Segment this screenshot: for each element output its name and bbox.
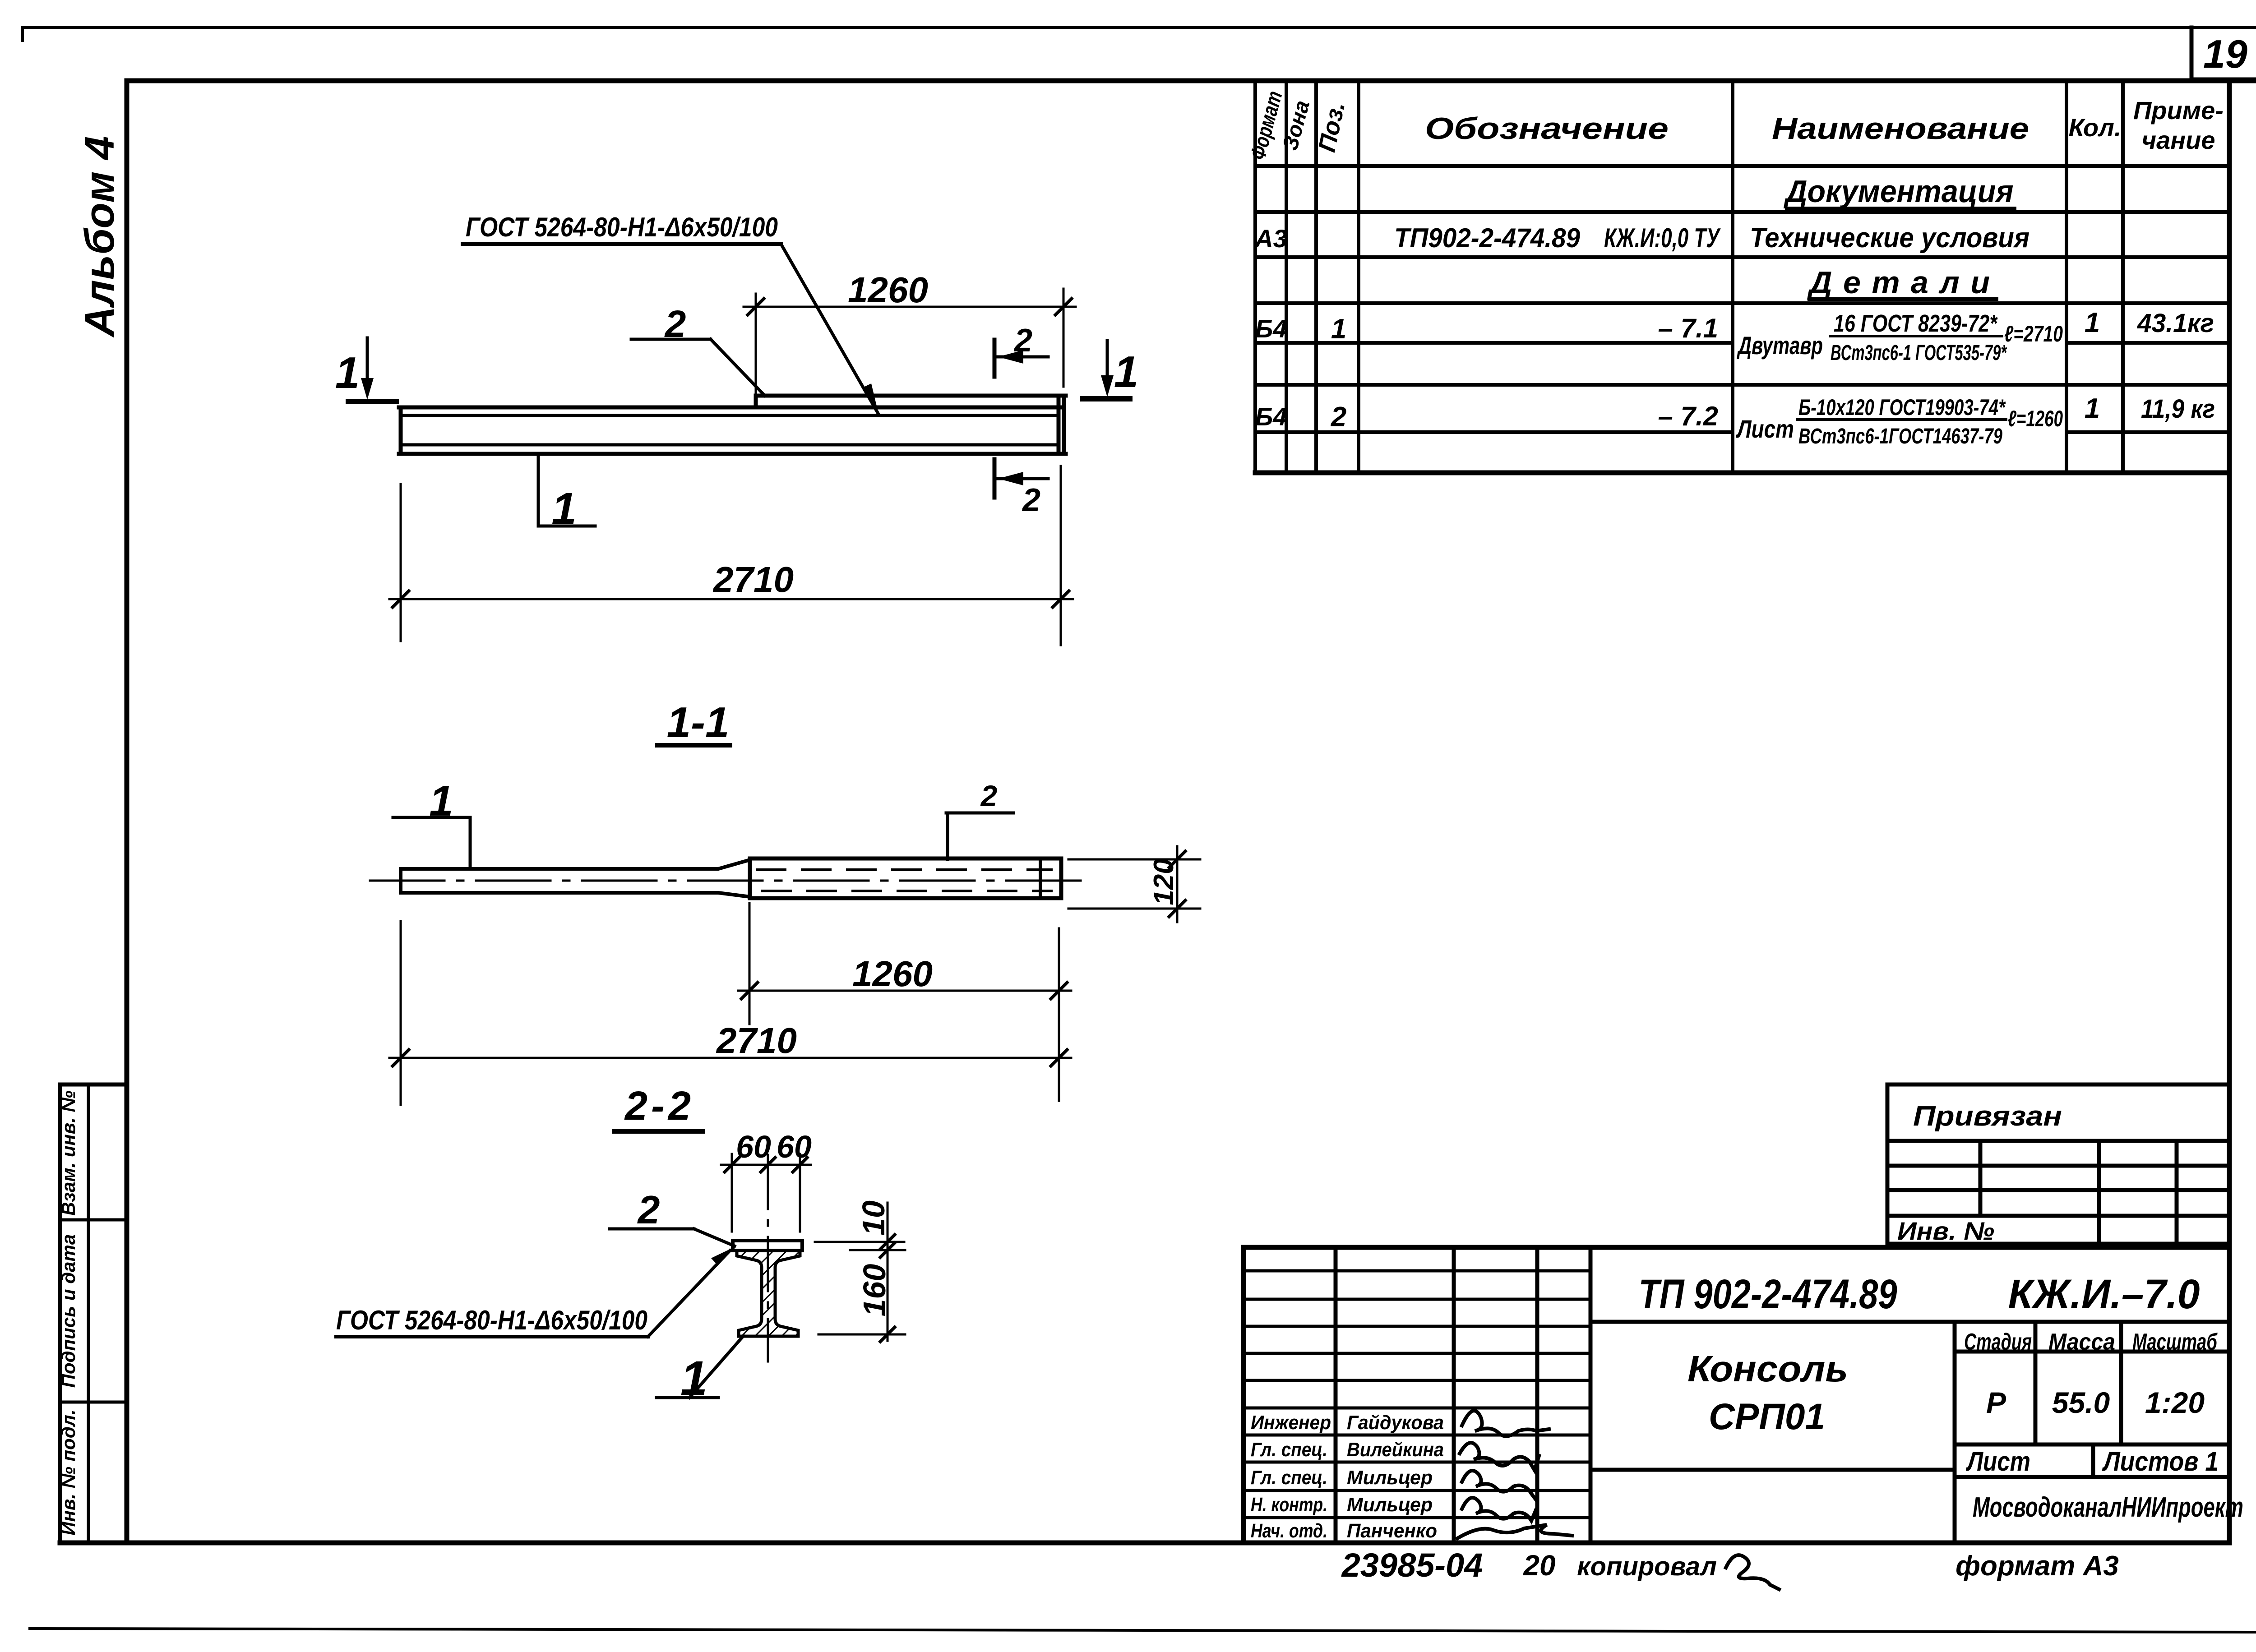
- svg-text:2710: 2710: [712, 559, 794, 600]
- s22 dim 60-60 line: [721, 1164, 811, 1166]
- label 2 shelf: [631, 338, 711, 341]
- s11 hidden edge dashed bottom: [763, 890, 1051, 892]
- svg-text:Инженер: Инженер: [1251, 1412, 1331, 1434]
- svg-text:Листов 1: Листов 1: [2102, 1446, 2219, 1477]
- s11 flange strip left end: [399, 869, 402, 893]
- svg-text:160: 160: [857, 1264, 892, 1317]
- svg-text:Обозначение: Обозначение: [1425, 111, 1669, 146]
- label 1 leader vertical: [537, 455, 540, 526]
- svg-text:1260: 1260: [848, 270, 928, 310]
- dim 1260 ext left: [755, 294, 757, 396]
- svg-text:1:20: 1:20: [2145, 1386, 2205, 1419]
- dim 1260 line: [744, 306, 1076, 308]
- s11 dim 120 ticks: [1169, 851, 1185, 868]
- svg-text:ТП 902-2-474.89: ТП 902-2-474.89: [1639, 1271, 1897, 1317]
- s11 flange strip top: [401, 860, 750, 869]
- svg-text:2-2: 2-2: [624, 1084, 694, 1129]
- spec row tech conditions: [1254, 222, 2029, 254]
- s22 dim ticks right: [880, 1235, 895, 1249]
- svg-text:Альбом 4: Альбом 4: [77, 136, 123, 338]
- svg-text:Гл. спец.: Гл. спец.: [1251, 1439, 1327, 1461]
- section 1-1 title underline: [657, 743, 730, 748]
- s22 dim 60 ext right: [799, 1154, 801, 1232]
- svg-text:43.1кг: 43.1кг: [2137, 309, 2214, 338]
- svg-text:ГОСТ 5264-80-Н1-Δ6х50/100: ГОСТ 5264-80-Н1-Δ6х50/100: [466, 212, 778, 242]
- svg-text:2: 2: [980, 779, 998, 812]
- section mark 1 left arrow: [366, 338, 369, 386]
- svg-text:Технические условия: Технические условия: [1750, 222, 2029, 254]
- svg-text:Подпись и дата: Подпись и дата: [58, 1234, 79, 1388]
- svg-text:Взам. инв. №: Взам. инв. №: [58, 1090, 79, 1215]
- s22 label 2 leader: [694, 1229, 735, 1246]
- svg-text:формат А3: формат А3: [1956, 1550, 2119, 1582]
- dim 2710 ext left: [400, 484, 402, 641]
- copyist signature: [1726, 1555, 1779, 1589]
- svg-text:Инв. №: Инв. №: [1897, 1217, 1994, 1245]
- s22 I-beam section outline hatched: [737, 1251, 800, 1336]
- s11 dim 120 ext top: [1068, 858, 1200, 861]
- svg-text:Двутавр: Двутавр: [1737, 331, 1823, 360]
- svg-text:Вилейкина: Вилейкина: [1347, 1439, 1444, 1461]
- s22 label 2 shelf: [610, 1227, 694, 1231]
- s22 dim 60 ext left: [731, 1154, 733, 1232]
- svg-text:ВСт3пс6-1 ГОСТ535-79*: ВСт3пс6-1 ГОСТ535-79*: [1831, 341, 2007, 365]
- dim 2710 line: [389, 598, 1073, 600]
- svg-text:10: 10: [856, 1200, 891, 1236]
- svg-text:Б4: Б4: [1255, 402, 1287, 431]
- svg-text:Гайдукова: Гайдукова: [1347, 1412, 1444, 1434]
- section mark 2 bottom tick: [993, 459, 997, 498]
- svg-text:2: 2: [1022, 482, 1040, 518]
- beam flange inner top line: [401, 414, 1059, 417]
- s11 dim 120 line: [1176, 846, 1179, 922]
- section mark 1 right bar: [1083, 396, 1130, 401]
- s22 ext line flange bottom: [818, 1334, 905, 1336]
- dim 1260 ext right: [1063, 289, 1065, 387]
- svg-text:чание: чание: [2142, 126, 2215, 154]
- svg-text:120: 120: [1148, 858, 1179, 905]
- svg-text:2710: 2710: [716, 1020, 797, 1061]
- svg-text:16 ГОСТ 8239-72*: 16 ГОСТ 8239-72*: [1834, 310, 1998, 337]
- title block doc number: [1251, 1271, 2243, 1542]
- bottom annotation numbers: [1341, 1546, 2119, 1584]
- svg-text:Наименование: Наименование: [1772, 111, 2029, 146]
- main frame right thick line: [2227, 81, 2232, 1543]
- svg-text:Р: Р: [1986, 1386, 2006, 1419]
- s11 dim 1260 line: [738, 990, 1071, 992]
- s11 hidden edge dashed top: [757, 868, 1051, 871]
- svg-text:МосводоканалНИИпроект: МосводоканалНИИпроект: [1973, 1492, 2243, 1523]
- s22 ext line plate top: [815, 1241, 904, 1243]
- svg-text:ВСт3пс6-1ГОСТ14637-79: ВСт3пс6-1ГОСТ14637-79: [1798, 425, 2002, 448]
- svg-text:1: 1: [551, 484, 577, 534]
- section mark 2 top arrow: [997, 355, 1048, 359]
- svg-text:копировал: копировал: [1577, 1552, 1717, 1581]
- section mark 1 right arrow: [1106, 341, 1109, 388]
- s22 plate part2: [733, 1241, 802, 1251]
- plate part2 top line: [756, 394, 1066, 398]
- title block right grid: [1590, 1322, 2229, 1543]
- s11 dim 1260 ext right: [1058, 928, 1060, 1101]
- svg-text:Привязан: Привязан: [1913, 1101, 2062, 1132]
- svg-text:19: 19: [2203, 32, 2247, 76]
- privyazan texts: [1897, 1101, 2062, 1245]
- signature squiggle 1: [1462, 1411, 1549, 1436]
- label 2 leader: [711, 339, 765, 396]
- svg-text:Б4: Б4: [1255, 314, 1287, 343]
- svg-text:1: 1: [2085, 307, 2100, 338]
- s11 dim 2710 ext left: [400, 921, 402, 1105]
- svg-text:Масштаб: Масштаб: [2132, 1329, 2218, 1355]
- svg-text:1: 1: [335, 348, 360, 397]
- s11 dim 1260 ext left: [749, 903, 751, 1024]
- svg-text:– 7.1: – 7.1: [1658, 313, 1718, 343]
- signature squiggle 5: [1457, 1525, 1572, 1538]
- svg-text:1-1: 1-1: [667, 698, 730, 747]
- svg-text:Мильцер: Мильцер: [1347, 1467, 1433, 1489]
- plate part2 left edge: [754, 396, 758, 407]
- svg-text:1: 1: [1114, 347, 1139, 397]
- s11 flange strip bottom: [401, 893, 750, 897]
- beam flange inner bottom line: [401, 443, 1059, 447]
- svg-text:Документация: Документация: [1784, 174, 2014, 209]
- s11 label 2 shelf: [946, 812, 1013, 815]
- page number box: [2191, 28, 2256, 79]
- dim 2710 ext right: [1060, 466, 1062, 645]
- beam right end double line: [1057, 396, 1061, 454]
- svg-text:60: 60: [736, 1129, 771, 1164]
- s22 label 1 leader: [689, 1336, 744, 1398]
- s11 centerline: [370, 880, 1084, 882]
- svg-text:ℓ=1260: ℓ=1260: [2008, 406, 2063, 431]
- svg-text:КЖ.И.–7.0: КЖ.И.–7.0: [2008, 1271, 2200, 1317]
- svg-text:– 7.2: – 7.2: [1658, 401, 1718, 431]
- outer sheet border bottom: [30, 1629, 2256, 1632]
- svg-text:Стадия: Стадия: [1964, 1329, 2032, 1355]
- signature squiggle 2: [1460, 1443, 1539, 1470]
- s11 dim 120 ext bottom: [1068, 908, 1200, 910]
- spec table header texts: [1246, 88, 2224, 162]
- s22 ext line plate bottom: [850, 1249, 905, 1251]
- svg-text:А3: А3: [1254, 224, 1287, 253]
- svg-text:Лист: Лист: [1736, 415, 1794, 443]
- signature squiggle 4: [1462, 1498, 1536, 1521]
- svg-text:Консоль: Консоль: [1687, 1348, 1848, 1389]
- svg-text:1: 1: [1331, 314, 1346, 345]
- s11 dim 1260 ticks: [741, 983, 758, 999]
- svg-text:55.0: 55.0: [2052, 1386, 2110, 1419]
- svg-text:20: 20: [1523, 1549, 1555, 1582]
- spec row documentation: [1784, 174, 2014, 209]
- svg-text:2: 2: [1013, 323, 1032, 359]
- svg-text:КЖ.И:0,0 ТУ: КЖ.И:0,0 ТУ: [1604, 223, 1721, 253]
- svg-text:СРП01: СРП01: [1709, 1396, 1825, 1437]
- s11 dim 2710 ticks: [393, 1050, 409, 1066]
- svg-text:Панченко: Панченко: [1347, 1520, 1437, 1542]
- s22 dim 60 ticks: [725, 1158, 739, 1172]
- svg-text:ГОСТ 5264-80-Н1-Δ6х50/100: ГОСТ 5264-80-Н1-Δ6х50/100: [336, 1305, 647, 1335]
- spec row details: [1807, 265, 1990, 300]
- left binding strip: [60, 1084, 127, 1543]
- svg-text:1: 1: [2085, 393, 2100, 424]
- svg-text:ℓ=2710: ℓ=2710: [2004, 321, 2063, 346]
- spec row 1 dvutavr: [1255, 307, 2214, 365]
- s22 weld underline: [336, 1335, 648, 1338]
- svg-text:Б-10х120 ГОСТ19903-74*: Б-10х120 ГОСТ19903-74*: [1798, 395, 2006, 420]
- svg-text:Масса: Масса: [2048, 1329, 2115, 1355]
- svg-text:1260: 1260: [852, 954, 933, 994]
- s22 right dim line vertical: [887, 1203, 889, 1341]
- s11 label 2 leader: [946, 813, 949, 859]
- specification table grid: [1255, 81, 2229, 473]
- weld designation underline: [462, 242, 781, 246]
- section mark 2 top tick: [993, 340, 997, 377]
- svg-text:Гл. спец.: Гл. спец.: [1251, 1467, 1327, 1489]
- section 2-2 title underline: [615, 1129, 703, 1134]
- svg-text:60: 60: [777, 1129, 812, 1164]
- svg-text:Лист: Лист: [1966, 1446, 2030, 1477]
- svg-text:Нач. отд.: Нач. отд.: [1251, 1520, 1327, 1542]
- s11 plate part2 outline: [750, 858, 1061, 898]
- svg-text:Приме-: Приме-: [2133, 96, 2224, 125]
- svg-text:11,9 кг: 11,9 кг: [2141, 394, 2215, 424]
- svg-text:Инв. № подл.: Инв. № подл.: [58, 1409, 79, 1535]
- s22 weld leader arrowhead: [711, 1248, 733, 1265]
- main frame bottom: [60, 1541, 2229, 1546]
- svg-text:ТП902-2-474.89: ТП902-2-474.89: [1394, 223, 1581, 253]
- weld leader line: [781, 244, 878, 414]
- dim 2710 ticks: [393, 591, 409, 607]
- s11 dim 2710 line: [389, 1057, 1071, 1059]
- svg-text:2: 2: [1331, 401, 1346, 433]
- dim 1260 ticks: [748, 299, 764, 315]
- beam part1 bottom line: [399, 452, 1066, 456]
- title block left grid: [1244, 1247, 1590, 1543]
- outer sheet border top: [23, 28, 2256, 41]
- svg-text:2: 2: [637, 1187, 660, 1232]
- section mark 1 left bar: [348, 399, 396, 404]
- s22 centerline: [767, 1155, 769, 1361]
- section mark 2 bottom arrow: [997, 477, 1048, 480]
- label 1 shelf: [538, 525, 595, 528]
- svg-text:Мильцер: Мильцер: [1347, 1494, 1433, 1516]
- svg-text:23985-04: 23985-04: [1341, 1546, 1483, 1584]
- weld leader arrowhead: [862, 383, 879, 417]
- privyazan table: [1887, 1084, 2229, 1244]
- s11 label 1 leader: [469, 817, 472, 869]
- s22 label 1 shelf: [656, 1396, 718, 1399]
- signature squiggle 3: [1462, 1471, 1537, 1501]
- s22 weld leader: [648, 1251, 730, 1337]
- svg-text:Н. контр.: Н. контр.: [1251, 1494, 1327, 1516]
- beam part1 top line: [399, 406, 1061, 410]
- beam part1 left end: [399, 407, 403, 454]
- svg-text:Кол.: Кол.: [2069, 113, 2122, 142]
- spec row 2 list: [1255, 393, 2215, 448]
- title block frame: [1244, 1247, 2229, 1543]
- s11 label 1 shelf: [393, 816, 470, 819]
- s11 plate right end double line: [1039, 858, 1042, 898]
